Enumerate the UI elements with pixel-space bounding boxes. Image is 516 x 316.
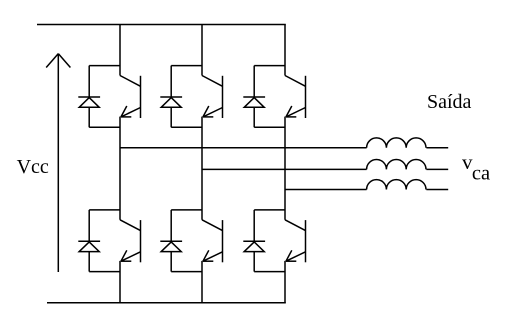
- label v_ca: [462, 150, 490, 185]
- power Vcc arrow: [46, 54, 70, 272]
- diode D6: [243, 210, 265, 272]
- wire phase C output right segment: [426, 189, 448, 191]
- wire phase leg B: [201, 117, 203, 220]
- wire diode-loop bottom: [254, 271, 285, 273]
- wire diode-loop bottom: [171, 126, 202, 128]
- wire phase A output left segment: [120, 147, 367, 149]
- wire top rail drop to Q3 collector: [201, 25, 203, 76]
- wire top rail drop to Q5 collector: [284, 25, 286, 76]
- diode D1: [78, 66, 100, 128]
- label Vcc: [17, 156, 49, 178]
- transistor Q6: [285, 220, 306, 262]
- inductor L3: [367, 180, 426, 190]
- transistor Q2: [120, 220, 141, 262]
- transistor Q5: [285, 76, 306, 119]
- wire phase C output left segment: [285, 189, 367, 191]
- transistor Q1: [120, 76, 141, 119]
- transistor Q3: [202, 76, 223, 119]
- wire diode-loop top: [89, 209, 120, 211]
- svg-text:Vcc: Vcc: [17, 156, 49, 178]
- inductor L2: [367, 159, 426, 169]
- wire phase A output right segment: [426, 147, 448, 149]
- wire bottom DC rail: [47, 302, 286, 304]
- wire Q lower emitter C to bottom rail: [284, 261, 286, 303]
- wire diode-loop top: [171, 209, 202, 211]
- wire Q lower emitter B to bottom rail: [201, 261, 203, 303]
- wire diode-loop top: [171, 65, 202, 67]
- wire diode-loop top: [254, 65, 285, 67]
- transistor Q4: [202, 220, 223, 262]
- svg-text:ca: ca: [472, 163, 490, 185]
- wire phase leg A: [119, 117, 121, 220]
- wire Q lower emitter A to bottom rail: [119, 261, 121, 303]
- wire phase B output left segment: [202, 168, 367, 170]
- wire top rail drop to Q1 collector: [119, 25, 121, 76]
- diode D3: [160, 66, 182, 128]
- svg-text:Saída: Saída: [427, 91, 472, 113]
- wire diode-loop top: [89, 65, 120, 67]
- wire diode-loop bottom: [171, 271, 202, 273]
- diode D5: [243, 66, 265, 128]
- wire diode-loop top: [254, 209, 285, 211]
- label Saida: [427, 91, 472, 113]
- wire diode-loop bottom: [89, 271, 120, 273]
- wire phase leg C: [284, 117, 286, 220]
- inductor L1: [367, 138, 426, 148]
- wire diode-loop bottom: [254, 126, 285, 128]
- wire phase B output right segment: [426, 168, 448, 170]
- diode D2: [78, 210, 100, 272]
- diode D4: [160, 210, 182, 272]
- wire diode-loop bottom: [89, 126, 120, 128]
- wire top DC rail: [37, 24, 286, 26]
